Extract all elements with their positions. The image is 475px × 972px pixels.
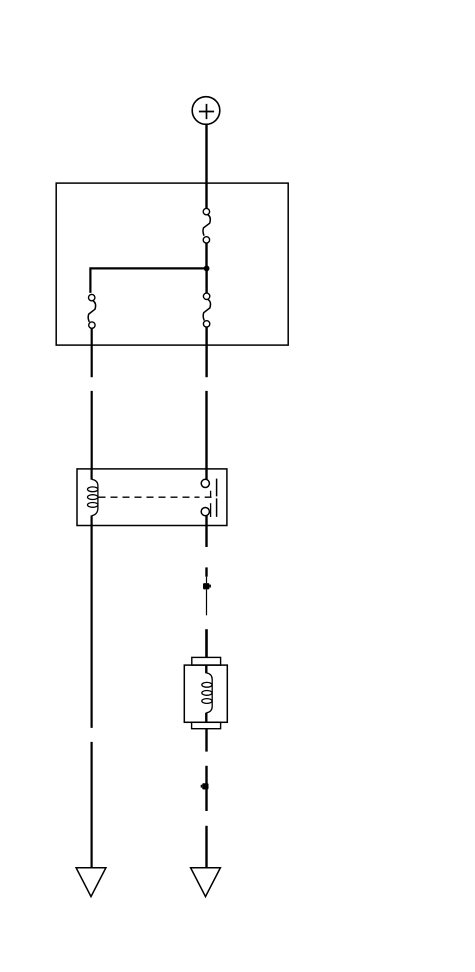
relay coil	[88, 469, 98, 526]
relay contact lower mark	[210, 503, 212, 517]
battery B+ terminal	[192, 97, 220, 125]
junction node	[204, 266, 210, 272]
relay contact blade	[216, 479, 218, 517]
solenoid bottom terminal tab	[192, 722, 221, 728]
solenoid body	[184, 665, 227, 722]
wire right lower run	[205, 826, 207, 868]
fuse box	[56, 183, 288, 345]
arrow terminal left	[76, 868, 106, 897]
wire relay switch down	[205, 526, 207, 548]
wire thin below splice S1	[206, 589, 208, 615]
relay K1 box	[77, 469, 227, 526]
fuse F3	[203, 293, 210, 327]
wire F3 down out of fuse box	[205, 327, 207, 377]
arrow terminal right	[191, 868, 221, 897]
wire battery to fuse box	[205, 124, 207, 183]
solenoid coil	[202, 665, 212, 722]
wire dash segment	[205, 567, 207, 576]
wire thin lead to splice S1	[206, 577, 208, 584]
relay contact fixed mark	[205, 491, 212, 498]
wire F1 to junction	[205, 243, 207, 266]
relay switch terminals	[201, 469, 209, 526]
solenoid top terminal tab	[192, 657, 221, 665]
wire left resuming to relay	[91, 391, 93, 469]
relay linkage dashed line	[99, 496, 200, 498]
wire right resuming to relay	[205, 391, 207, 469]
wire F2 down out of fuse box	[91, 328, 93, 377]
fuse F2	[88, 294, 96, 328]
wire segment with splice S2	[205, 766, 207, 811]
fuse F1	[203, 208, 210, 243]
wire solenoid down	[205, 729, 207, 752]
splice S2	[201, 783, 209, 789]
splice S1	[203, 583, 211, 589]
wire left lower run	[90, 742, 92, 868]
wire junction horizontal branch	[89, 268, 206, 293]
wire junction to fuse F3	[205, 270, 207, 293]
wire inside fuse box to fuse F1	[205, 183, 207, 208]
wire left relay to splice gap	[90, 526, 92, 728]
wire to solenoid	[205, 629, 208, 657]
